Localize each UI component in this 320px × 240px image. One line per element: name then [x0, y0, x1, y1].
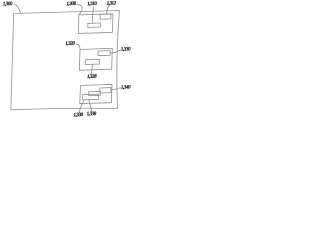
svg-text:1,312: 1,312: [106, 0, 116, 6]
svg-text:1,300: 1,300: [3, 1, 13, 7]
svg-text:1,310: 1,310: [87, 1, 97, 7]
svg-text:1,330: 1,330: [73, 112, 83, 118]
svg-text:1,308: 1,308: [66, 1, 76, 7]
svg-text:1,328: 1,328: [87, 74, 97, 80]
svg-text:1,340: 1,340: [121, 84, 131, 90]
svg-text:1,320: 1,320: [65, 41, 75, 47]
svg-text:1,330: 1,330: [121, 46, 131, 52]
svg-text:1,338: 1,338: [87, 111, 97, 117]
